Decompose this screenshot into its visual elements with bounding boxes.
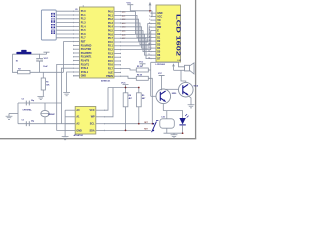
- VCC symbol above MCU: [127, 5, 133, 11]
- MCU right pins with labels: [114, 11, 121, 13]
- wire LED bottom: [182, 125, 184, 133]
- svg-text:P3.0/RXD: P3.0/RXD: [81, 44, 92, 47]
- LCD U2 LCD1602 body: [156, 5, 181, 62]
- resistor R2 in reset loop bottom: [18, 70, 30, 73]
- sheet border (right and bottom frame lines): [0, 0, 196, 139]
- wire EEPROM WP riser: [105, 88, 113, 117]
- svg-text:4K7: 4K7: [142, 97, 145, 100]
- capacitor C2 top: [26, 101, 29, 106]
- svg-text:P2.5: P2.5: [108, 60, 114, 63]
- svg-text:P2.1: P2.1: [108, 45, 114, 48]
- wire crystal left + gnd stub: [17, 103, 19, 124]
- svg-text:AT24C02: AT24C02: [74, 134, 84, 137]
- svg-text:SDA: SDA: [90, 129, 95, 132]
- MCU GND pin stub: [73, 75, 80, 77]
- svg-text:CRYSTAL: CRYSTAL: [23, 109, 33, 112]
- transistor Q1 circle: [156, 89, 171, 104]
- svg-text:P2.4: P2.4: [108, 56, 114, 59]
- svg-text:GND: GND: [81, 75, 87, 78]
- wire EEPROM VCC riser: [105, 88, 108, 111]
- svg-text:PSEN: PSEN: [106, 75, 113, 78]
- svg-text:7: 7: [149, 33, 150, 35]
- svg-text:P2.0: P2.0: [108, 41, 114, 44]
- svg-text:14: 14: [148, 56, 150, 59]
- svg-text:P0.0: P0.0: [108, 11, 114, 14]
- svg-text:P2.6: P2.6: [108, 64, 114, 67]
- svg-text:P1.4: P1.4: [81, 25, 87, 28]
- svg-text:P3.3/INT1: P3.3/INT1: [81, 56, 92, 59]
- svg-text:9: 9: [149, 40, 150, 42]
- resistor R1 RST pulldown: [41, 78, 45, 90]
- wire EEPROM left pins bus: [64, 110, 66, 136]
- resistor R3 pullup: [123, 93, 128, 107]
- key S2: [153, 123, 155, 125]
- svg-text:P1.3: P1.3: [81, 22, 87, 25]
- svg-text:P0.2: P0.2: [108, 18, 114, 21]
- VCC bar above Q1: [159, 75, 165, 77]
- svg-text:11: 11: [148, 47, 150, 49]
- svg-text:6: 6: [149, 29, 150, 31]
- svg-text:C2: C2: [22, 99, 24, 101]
- svg-text:XTAL2: XTAL2: [81, 67, 89, 70]
- svg-text:VCC: VCC: [127, 3, 132, 5]
- svg-text:P0.5: P0.5: [108, 30, 114, 33]
- ground at crystal left: [6, 116, 13, 119]
- svg-text:P3.5/T1: P3.5/T1: [81, 63, 90, 66]
- wire speaker bottom terminal: [174, 69, 185, 71]
- svg-text:P2.7: P2.7: [108, 68, 114, 71]
- svg-text:8: 8: [149, 36, 150, 38]
- svg-text:P0.3: P0.3: [108, 22, 114, 25]
- LCD pins with labels: [151, 12, 156, 14]
- crystal X1 ellipse: [41, 110, 49, 116]
- capacitor C1 in reset branch: [36, 58, 43, 59]
- ground below Q2: [188, 105, 195, 108]
- svg-text:10K: 10K: [46, 85, 50, 87]
- svg-text:1: 1: [149, 12, 150, 14]
- LED D1: [179, 118, 185, 124]
- svg-text:4K7: 4K7: [129, 97, 132, 100]
- svg-text:30p: 30p: [31, 100, 35, 102]
- svg-text:ALE: ALE: [108, 71, 113, 74]
- svg-text:P1.7: P1.7: [81, 37, 87, 40]
- svg-text:P1.6: P1.6: [81, 33, 87, 36]
- svg-text:P0.4: P0.4: [108, 26, 114, 29]
- svg-text:2: 2: [149, 15, 150, 17]
- bus wires P0.0-P0.7 to LCD D0-D7: [121, 12, 151, 34]
- keyboard module vertical label (CJK glyph blobs): [51, 13, 55, 17]
- svg-text:30p: 30p: [31, 121, 35, 123]
- svg-text:P2.3: P2.3: [108, 52, 114, 55]
- svg-text:P1.0: P1.0: [81, 10, 87, 13]
- wire ground stem buzzer: [173, 133, 175, 134]
- capacitor C3 bottom: [26, 121, 29, 126]
- svg-text:P1.1: P1.1: [81, 14, 87, 17]
- svg-text:12MHZ: 12MHZ: [48, 114, 56, 116]
- svg-text:AD4: AD4: [122, 26, 126, 29]
- svg-text:LCD 1602: LCD 1602: [175, 14, 181, 56]
- ground below EEPROM bus: [62, 137, 69, 140]
- resistor R4 pullup: [137, 93, 142, 107]
- VCC symbol near R5: [140, 64, 146, 67]
- VCC arrow symbol on rail: [149, 5, 151, 11]
- reset loop wires: [12, 54, 39, 72]
- svg-text:P0.1: P0.1: [108, 14, 114, 17]
- reset button S1 (navy bar): [16, 52, 31, 54]
- svg-text:12: 12: [148, 50, 150, 52]
- wire Q1 to Q2 base: [166, 88, 179, 90]
- svg-text:P0.7: P0.7: [108, 37, 114, 40]
- svg-text:R8: R8: [129, 95, 131, 97]
- wire Q2 emitter to ground: [188, 96, 191, 105]
- wire Q2 collector to speaker: [181, 70, 186, 82]
- svg-text:RST: RST: [81, 41, 86, 44]
- svg-text:VCC: VCC: [44, 58, 49, 60]
- EEPROM pins with labels: [65, 109, 75, 111]
- svg-text:SCL: SCL: [90, 123, 95, 126]
- ground below MCU: [63, 93, 70, 96]
- wire RST node right: [40, 71, 64, 73]
- svg-text:10uF: 10uF: [43, 66, 48, 68]
- svg-text:R9: R9: [142, 95, 144, 97]
- wire P3.5 to crystal top riser: [57, 64, 73, 130]
- wire R6 to key node: [148, 78, 152, 123]
- svg-text:4: 4: [149, 21, 150, 24]
- ground below R1: [37, 96, 44, 99]
- wire bus keyboard to P1.0-P1.7: [56, 10, 79, 12]
- ground below buzzer: [171, 135, 178, 138]
- svg-text:R6 1K: R6 1K: [137, 75, 143, 77]
- svg-text:P3.2/INT0: P3.2/INT0: [81, 52, 92, 55]
- svg-text:VCC: VCC: [90, 109, 95, 112]
- svg-text:U1: U1: [75, 9, 77, 11]
- svg-text:P0.6: P0.6: [108, 33, 114, 36]
- svg-text:P1.5: P1.5: [81, 29, 87, 32]
- resistor R5 horizontal: [136, 68, 148, 72]
- wire R5 to Q1 base: [148, 69, 151, 71]
- VCC rail above pullups: [108, 87, 139, 89]
- VCC symbol at pullups: [123, 85, 129, 88]
- MCU top pin tick: [82, 5, 84, 7]
- svg-text:8550: 8550: [172, 93, 177, 95]
- MCU U1 AT89C51 body: [80, 7, 115, 78]
- svg-text:R5 1K: R5 1K: [137, 66, 143, 68]
- wire SCL long: [105, 123, 151, 125]
- buzzer LS2 body: [166, 111, 168, 119]
- svg-text:C3: C3: [22, 119, 24, 121]
- transistor Q2 symbol: [183, 84, 188, 95]
- svg-text:R2: R2: [18, 69, 20, 71]
- wire P3.7 to ground: [67, 72, 73, 92]
- keyboard module box: [41, 10, 56, 40]
- svg-text:GND: GND: [76, 129, 82, 132]
- transistor Q2 circle: [179, 82, 194, 97]
- svg-text:LS2: LS2: [162, 117, 165, 119]
- svg-text:P1.2: P1.2: [81, 18, 87, 21]
- transistor Q1 symbol: [160, 91, 165, 102]
- svg-text:P3.4/T0: P3.4/T0: [81, 60, 90, 63]
- svg-text:LCD1602: LCD1602: [156, 64, 166, 66]
- control wires P2.0-P2.2 to LCD RS RW E: [121, 24, 151, 42]
- wire Q1 emitter down: [162, 104, 164, 111]
- svg-text:VCC: VCC: [121, 83, 126, 85]
- svg-text:VCC: VCC: [139, 61, 144, 63]
- svg-text:13: 13: [148, 54, 150, 56]
- svg-text:9014: 9014: [194, 85, 199, 88]
- wire RST to MCU pin: [64, 42, 74, 73]
- VCC arrow at speaker: [173, 66, 175, 70]
- svg-text:VCC: VCC: [158, 73, 163, 75]
- svg-text:XTAL1: XTAL1: [81, 71, 89, 74]
- wire SDA long: [105, 129, 151, 131]
- wire top rail buzzer block: [163, 111, 182, 118]
- svg-text:3: 3: [149, 19, 150, 21]
- svg-text:R1: R1: [46, 82, 48, 84]
- wire bottom rail buzzer block: [166, 128, 168, 133]
- svg-text:AT89C51: AT89C51: [101, 80, 111, 83]
- svg-text:WP: WP: [91, 116, 95, 119]
- VCC symbol at reset: [40, 53, 47, 55]
- svg-text:S1: S1: [16, 61, 18, 63]
- svg-text:10: 10: [148, 43, 150, 45]
- svg-text:5: 5: [149, 26, 150, 28]
- wire crystal bottom / EEPROM A2 row: [18, 123, 75, 125]
- speaker LS1: [185, 65, 190, 71]
- wire VCC rail to LCD: [130, 10, 152, 12]
- svg-text:P2.2: P2.2: [108, 49, 114, 52]
- pin end tick marks: [72, 11, 74, 12]
- resistor R6 horizontal: [136, 76, 148, 80]
- wire crystal top: [18, 102, 62, 104]
- crystal X1 branch wire: [44, 103, 46, 111]
- wire P3.6 riser to A2 row: [62, 68, 74, 124]
- svg-text:P3.1/TXD: P3.1/TXD: [81, 48, 92, 51]
- EEPROM U3 AT24C02 body: [75, 107, 96, 135]
- wire speaker top terminal via net to Q1 base rail: [151, 62, 185, 67]
